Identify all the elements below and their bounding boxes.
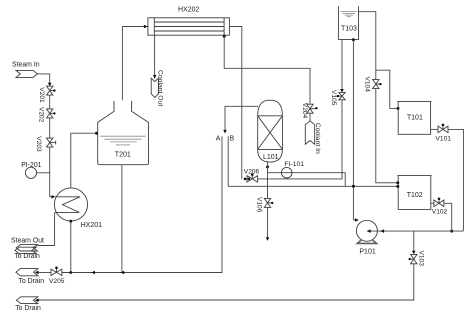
svg-text:V102: V102 bbox=[432, 209, 448, 216]
svg-text:T103: T103 bbox=[341, 26, 357, 33]
wire T101 feed bypass bbox=[376, 70, 398, 108]
flag Steam In bbox=[16, 70, 38, 77]
wire L101 bottoms down bbox=[267, 162, 269, 198]
wire bbox=[49, 95, 51, 109]
arrow discharge into pump bbox=[355, 218, 359, 222]
wire connector B to T102 bbox=[228, 136, 398, 186]
wire HX202 condensate to V206 bbox=[244, 178, 247, 181]
arrow on drain at 91 bbox=[91, 271, 95, 275]
tank T101 bbox=[397, 101, 431, 134]
svg-text:Steam Out: Steam Out bbox=[11, 238, 44, 245]
flag Coolant In bbox=[305, 121, 314, 144]
valve V106 bbox=[256, 197, 274, 213]
wire V103 branch bbox=[413, 231, 415, 251]
instrument PI-201 bbox=[21, 162, 50, 178]
arrow on drain at 120 bbox=[120, 271, 124, 275]
wire V104 to T102 upper inlet bbox=[376, 89, 398, 183]
svg-text:L101: L101 bbox=[263, 154, 279, 161]
valve V202 bbox=[37, 107, 55, 123]
wire HX202 shell to V204 bbox=[224, 36, 310, 104]
heat exchanger HX201 bbox=[54, 188, 102, 229]
wire V203 down to HX201 coil bbox=[49, 147, 51, 197]
instrument FI-101 bbox=[268, 161, 346, 186]
junction T102 lower inlet bbox=[396, 185, 399, 188]
junction crossing dot bbox=[352, 185, 355, 188]
tank T103 bbox=[338, 6, 358, 39]
wire T101 to V101 bbox=[431, 128, 438, 130]
wire bbox=[122, 26, 147, 28]
svg-text:V105: V105 bbox=[330, 90, 337, 106]
svg-text:PI-201: PI-201 bbox=[21, 162, 41, 169]
wire V206 to V105 riser bbox=[258, 100, 342, 179]
junction T102 upper inlet bbox=[396, 181, 399, 184]
svg-text:Coolant Out: Coolant Out bbox=[156, 70, 163, 106]
junction T101 inlet bbox=[397, 107, 400, 110]
arrow into HX202 bbox=[144, 25, 148, 29]
junction HX201 bottom bbox=[69, 220, 72, 223]
node T201 inlet junction bbox=[95, 132, 98, 135]
wire steam out from coil bbox=[38, 212, 55, 245]
svg-text:T101: T101 bbox=[407, 115, 423, 122]
arrow into coil bbox=[52, 195, 56, 199]
wire coolant out drop bbox=[154, 35, 156, 78]
valve V101 bbox=[436, 124, 452, 143]
valve V102 bbox=[432, 198, 448, 216]
wire V106 to product out bbox=[267, 207, 269, 237]
wire V204 to coolant in flag bbox=[309, 113, 311, 121]
svg-text:P101: P101 bbox=[359, 248, 375, 255]
arrow into coolant out flag bbox=[153, 75, 157, 79]
junction L101 bottom bbox=[266, 165, 269, 168]
tank T102 bbox=[397, 176, 431, 210]
valve V204 bbox=[301, 103, 318, 119]
wire steam in to V201 bbox=[38, 74, 50, 83]
valve V203 bbox=[35, 136, 56, 152]
valve V104 bbox=[364, 77, 382, 93]
wire T103 right to V104 bbox=[359, 12, 376, 80]
arrow into To Drain 2 bbox=[35, 271, 39, 275]
wire pump discharge corner bbox=[353, 219, 355, 221]
svg-text:Steam In: Steam In bbox=[12, 62, 40, 69]
wire V103 to drain 2 bbox=[38, 264, 414, 300]
flag Coolant Out bbox=[151, 78, 158, 97]
svg-text:FI-101: FI-101 bbox=[284, 161, 304, 168]
svg-text:To Drain: To Drain bbox=[18, 278, 44, 285]
wire pump suction manifold bbox=[367, 230, 463, 232]
wire HX201 top to T201 bbox=[71, 133, 97, 188]
pump P101 bbox=[356, 220, 377, 255]
wire bbox=[49, 118, 51, 138]
wire T102 to V102 bbox=[431, 202, 434, 204]
svg-text:V203: V203 bbox=[35, 136, 42, 152]
svg-text:To Drain: To Drain bbox=[15, 305, 41, 312]
svg-text:V202: V202 bbox=[37, 107, 44, 123]
wire drain manifold bbox=[62, 136, 222, 272]
flag Steam Out bbox=[16, 245, 37, 251]
wire vapor riser T201 to HX202 bbox=[121, 27, 123, 101]
wire V105 to T103 bbox=[341, 39, 343, 89]
junction drain HX201 bbox=[69, 271, 72, 274]
junction bbox=[450, 230, 453, 233]
heat exchanger HX202 bbox=[148, 7, 230, 36]
wire pump discharge riser bbox=[352, 40, 354, 220]
valve V105 bbox=[330, 89, 345, 106]
svg-text:V106: V106 bbox=[256, 197, 263, 213]
svg-text:To Drain: To Drain bbox=[14, 253, 40, 260]
wire T201 bottom drain bbox=[121, 165, 123, 273]
svg-text:V201: V201 bbox=[38, 87, 45, 103]
column L101 bbox=[258, 100, 283, 162]
valve V103 bbox=[409, 251, 425, 267]
wire bbox=[38, 272, 51, 274]
svg-text:Coolant In: Coolant In bbox=[314, 123, 321, 154]
svg-text:V204: V204 bbox=[301, 103, 308, 119]
wire V102 to pump manifold bbox=[444, 203, 452, 231]
arrow product out bbox=[266, 237, 270, 241]
arrow into To Drain 3 bbox=[35, 298, 39, 302]
wire HX202 tube outlet to V206 riser bbox=[229, 27, 241, 179]
wire L101 top to connector A bbox=[225, 106, 258, 130]
svg-text:V101: V101 bbox=[436, 136, 452, 143]
valve V201 bbox=[38, 86, 55, 103]
arrow down above V201 bbox=[48, 83, 52, 87]
svg-text:B: B bbox=[230, 135, 235, 142]
svg-text:V206: V206 bbox=[244, 168, 260, 175]
arrow connector A bbox=[223, 130, 227, 134]
svg-text:T102: T102 bbox=[407, 192, 423, 199]
svg-text:V104: V104 bbox=[364, 77, 371, 93]
arrow above V103 bbox=[412, 251, 416, 255]
arrow into pump center bbox=[367, 229, 371, 233]
junction T103 bottom bbox=[352, 38, 355, 41]
arrow on suction line bbox=[380, 229, 384, 233]
svg-text:V103: V103 bbox=[417, 251, 424, 267]
junction HX202 shell coolant inlet bbox=[223, 35, 226, 38]
svg-text:T201: T201 bbox=[115, 151, 131, 158]
flag To Drain 2 bbox=[16, 269, 38, 276]
valve V206 bbox=[244, 168, 260, 182]
valve V205 bbox=[49, 267, 65, 285]
svg-text:HX201: HX201 bbox=[81, 222, 103, 229]
tank T201 bbox=[98, 101, 149, 165]
svg-text:A: A bbox=[216, 135, 221, 142]
wire HX201 bottom to drain bbox=[70, 221, 72, 272]
flag To Drain 1 bbox=[15, 247, 36, 253]
svg-text:HX202: HX202 bbox=[178, 7, 200, 14]
svg-text:V205: V205 bbox=[49, 278, 65, 285]
wire V101 to pump manifold bbox=[448, 129, 463, 231]
flag To Drain 3 bbox=[16, 297, 37, 304]
